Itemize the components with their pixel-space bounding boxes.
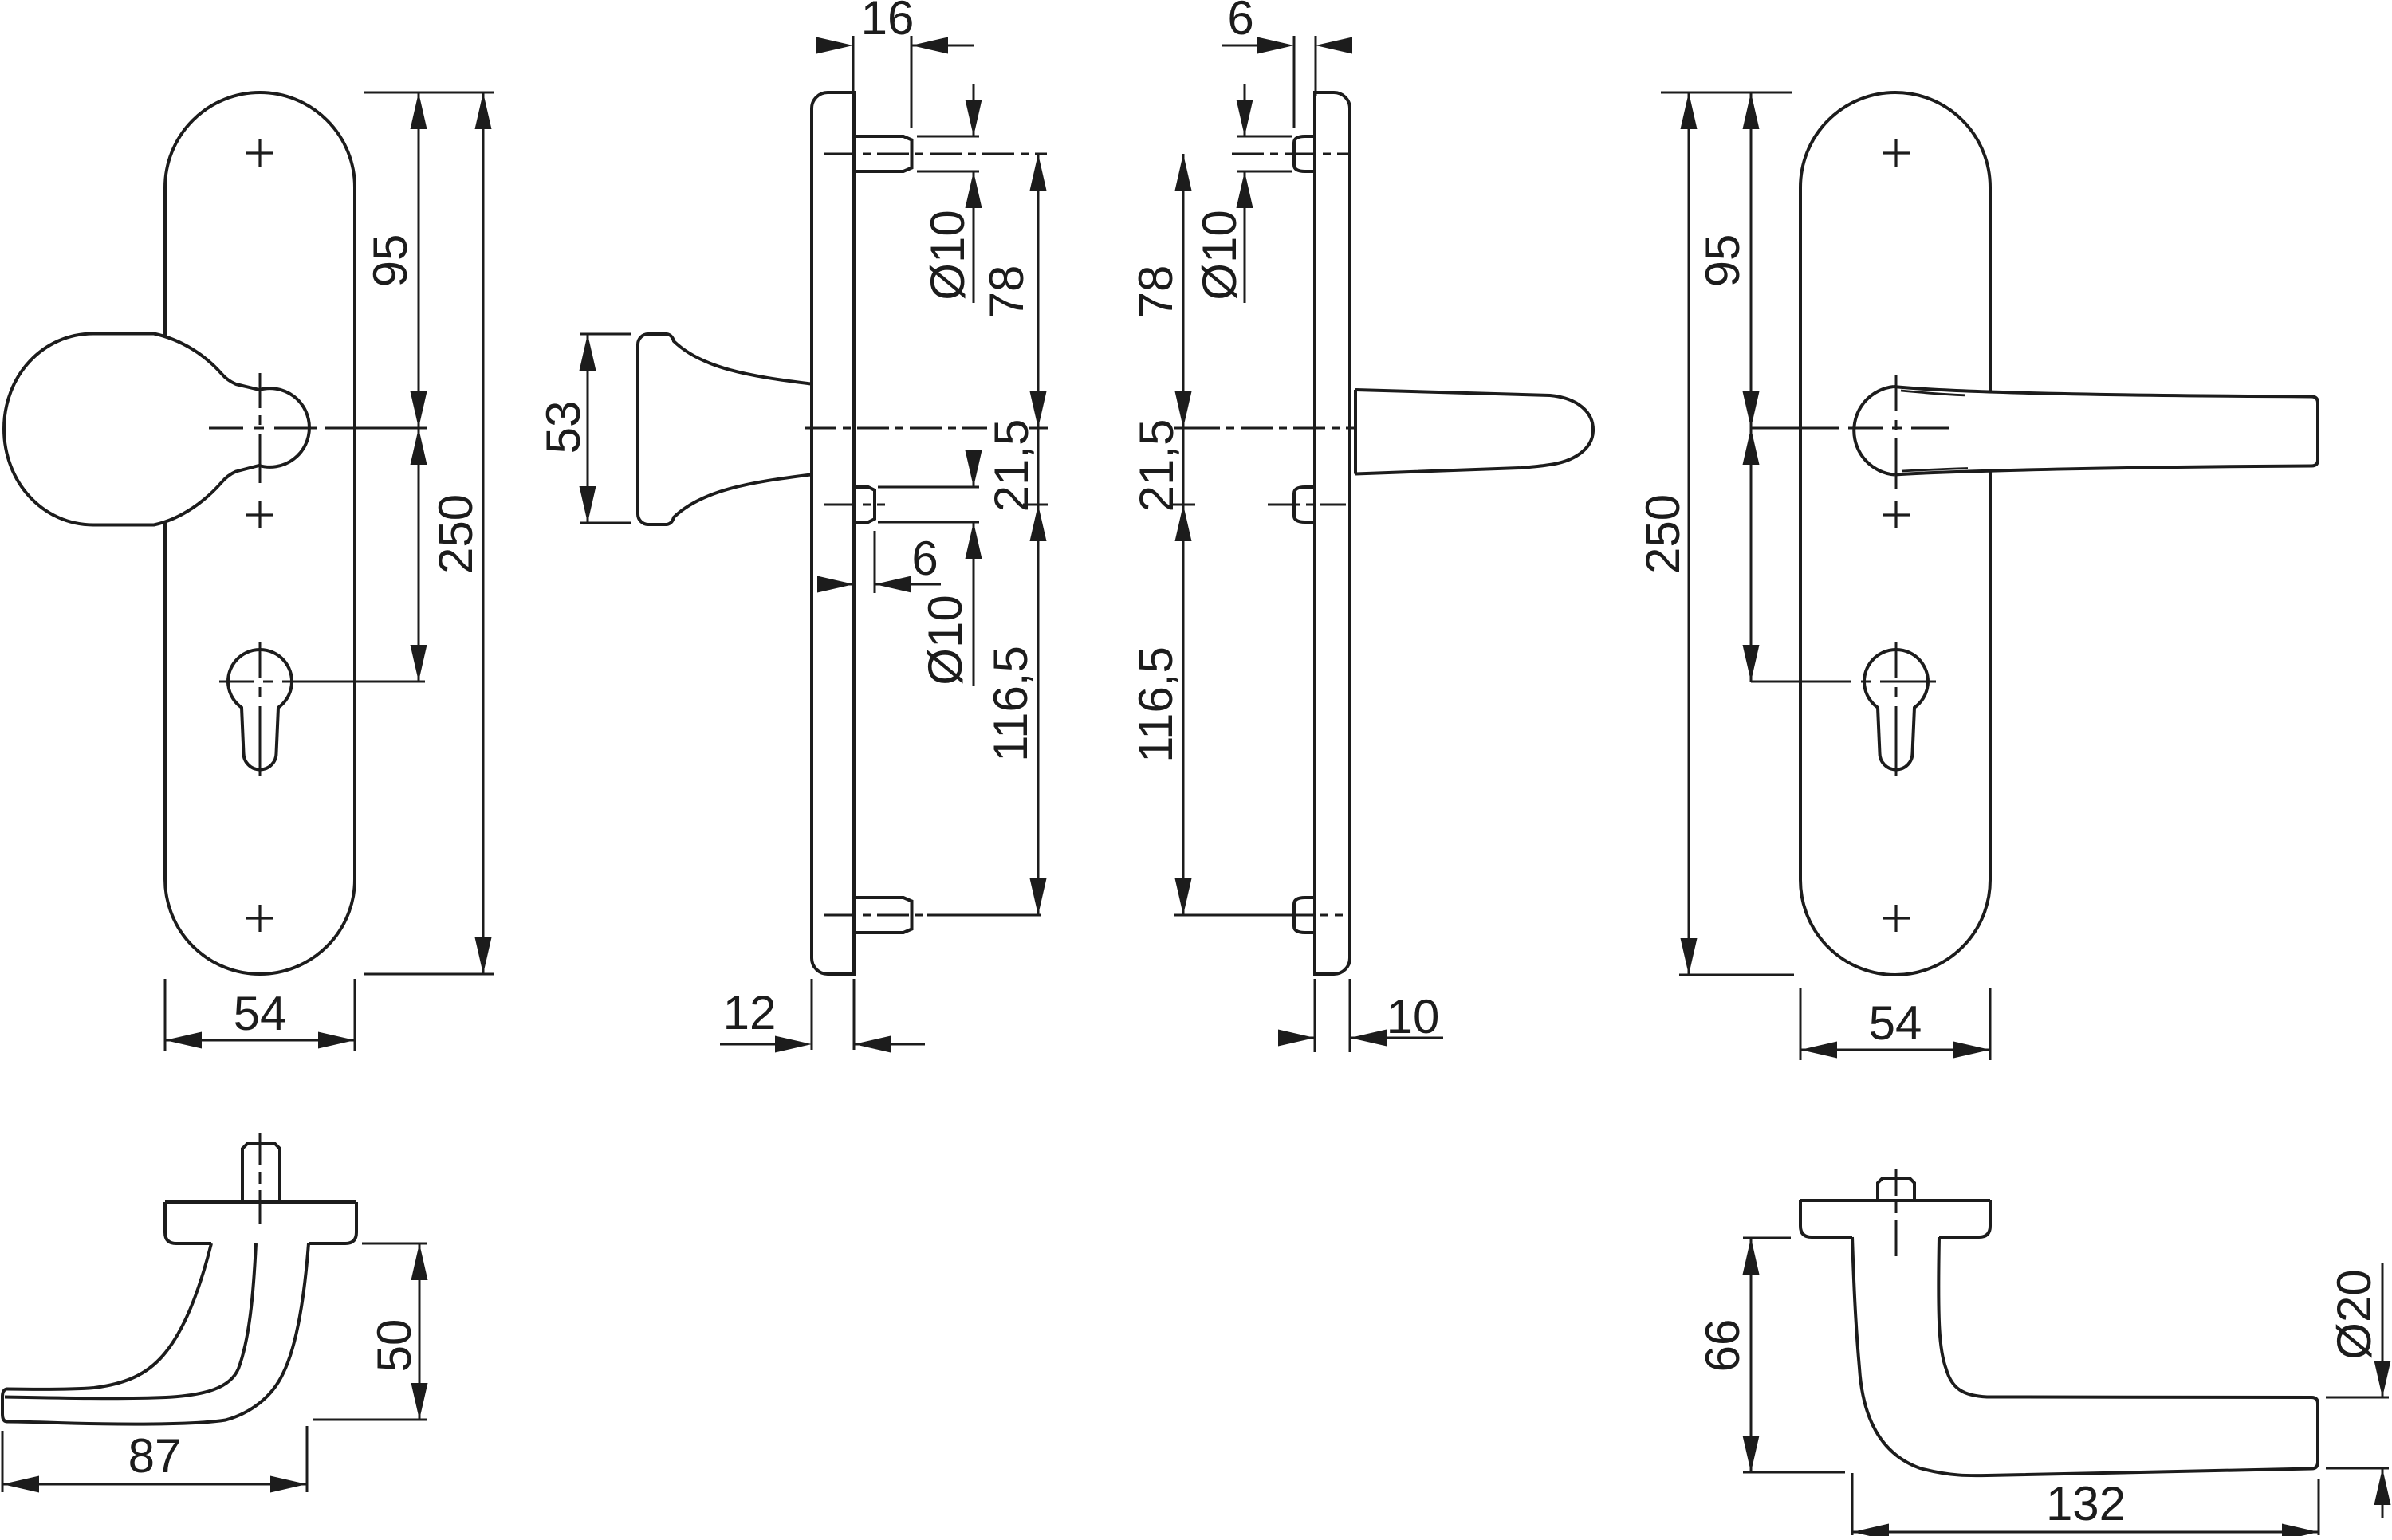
- svg-text:78: 78: [1129, 265, 1182, 319]
- svg-text:Ø10: Ø10: [921, 210, 974, 300]
- svg-text:66: 66: [1696, 1319, 1749, 1373]
- svg-text:250: 250: [1636, 494, 1690, 574]
- svg-text:21,5: 21,5: [985, 419, 1038, 513]
- svg-text:50: 50: [368, 1319, 421, 1373]
- svg-text:78: 78: [980, 265, 1033, 319]
- svg-text:116,5: 116,5: [984, 646, 1037, 762]
- svg-text:10: 10: [1387, 990, 1440, 1043]
- svg-text:16: 16: [861, 0, 915, 45]
- svg-text:132: 132: [2046, 1477, 2126, 1530]
- svg-text:6: 6: [1227, 0, 1253, 45]
- svg-text:95: 95: [364, 234, 417, 288]
- svg-text:6: 6: [911, 532, 938, 585]
- svg-text:250: 250: [429, 494, 482, 574]
- svg-text:54: 54: [1869, 996, 1922, 1050]
- svg-text:95: 95: [1696, 234, 1749, 288]
- svg-text:Ø10: Ø10: [1193, 210, 1246, 300]
- svg-text:87: 87: [128, 1429, 182, 1483]
- svg-text:12: 12: [723, 986, 777, 1039]
- svg-text:21,5: 21,5: [1130, 419, 1183, 513]
- svg-text:53: 53: [537, 401, 590, 454]
- svg-text:54: 54: [234, 987, 287, 1040]
- svg-text:Ø20: Ø20: [2327, 1269, 2381, 1359]
- svg-text:Ø10: Ø10: [919, 595, 972, 685]
- svg-text:116,5: 116,5: [1129, 646, 1182, 763]
